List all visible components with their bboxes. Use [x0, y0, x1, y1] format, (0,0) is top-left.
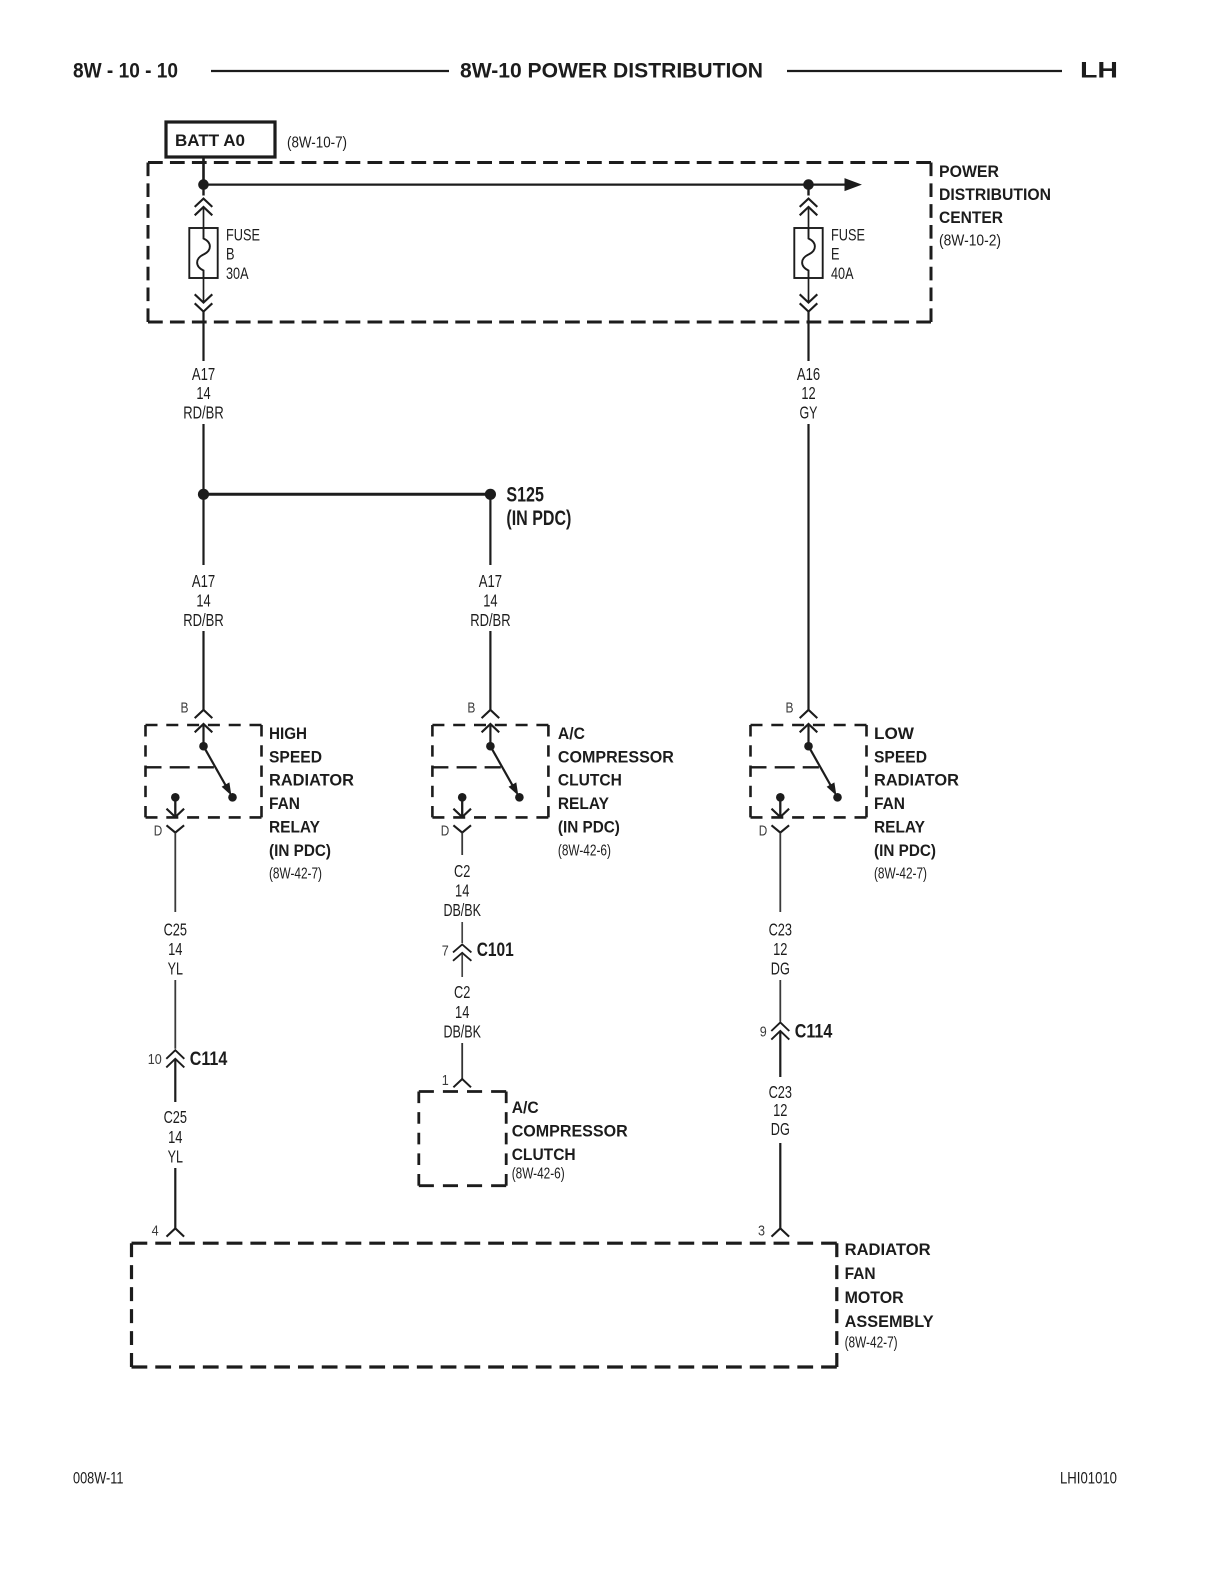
relay output contact low speed radiator fan relay [776, 793, 785, 802]
svg-text:COMPRESSOR: COMPRESSOR [558, 747, 674, 766]
connector half at pin B of low speed radiator fan relay [800, 710, 818, 718]
wire C114 to C25 label (lower) [174, 1068, 176, 1102]
wire A17 label to relay B (left) [202, 631, 204, 710]
relay box low speed radiator fan relay [751, 724, 867, 727]
relay pin D terminal arrow A/C compressor clutch relay [453, 797, 471, 817]
svg-text:14: 14 [168, 1127, 182, 1147]
wire label C23 12 DG (lower) [769, 1082, 792, 1139]
svg-text:4: 4 [152, 1223, 159, 1240]
connector chevrons above fuse E [800, 199, 818, 228]
relay output contact A/C compressor clutch relay [458, 793, 467, 802]
wire label C23 12 DG (upper) [769, 919, 792, 978]
connector label C114 (left) [190, 1049, 228, 1070]
svg-text:1: 1 [442, 1072, 449, 1089]
wire C2 to clutch pin 1 [461, 1043, 463, 1079]
wire relay D to C25 label [174, 833, 176, 912]
connector half at pin D of A/C compressor clutch relay [453, 825, 471, 832]
svg-text:RADIATOR: RADIATOR [874, 771, 959, 790]
svg-text:YL: YL [168, 1146, 183, 1166]
connector C114 pin 10 chevrons [166, 1050, 184, 1068]
page header title left [73, 60, 178, 83]
radiator fan motor assembly dashed box [132, 1243, 837, 1367]
svg-text:C25: C25 [164, 1107, 187, 1127]
relay common contact low speed radiator fan relay [804, 742, 813, 751]
connector chevrons above fuse B [195, 199, 213, 228]
svg-text:DG: DG [771, 1119, 790, 1139]
A/C compressor clutch dashed box [419, 1092, 506, 1186]
wire BATT A0 to junction [202, 157, 205, 185]
footer drawing id [1060, 1469, 1117, 1488]
fuse E symbol [794, 228, 822, 278]
pin number 9 at C114 [760, 1024, 767, 1041]
svg-text:D: D [759, 824, 768, 840]
svg-text:9: 9 [760, 1024, 767, 1041]
svg-text:14: 14 [455, 881, 469, 901]
label RADIATOR FAN MOTOR ASSEMBLY [845, 1240, 935, 1351]
svg-text:CLUTCH: CLUTCH [558, 771, 622, 790]
svg-text:008W-11: 008W-11 [73, 1469, 124, 1488]
svg-text:(8W-42-6): (8W-42-6) [558, 843, 611, 860]
wire A17 splice to label (left) [202, 494, 204, 565]
power distribution center dashed box [148, 163, 931, 323]
svg-text:C25: C25 [164, 919, 187, 939]
svg-text:FAN: FAN [269, 794, 300, 813]
svg-text:DB/BK: DB/BK [443, 1021, 481, 1041]
relay switch arm A/C compressor clutch relay [490, 746, 517, 794]
pin number 7 at C101 [442, 942, 449, 959]
svg-text:(8W-10-7): (8W-10-7) [287, 135, 347, 152]
svg-text:(8W-42-6): (8W-42-6) [512, 1166, 565, 1183]
connector half at clutch pin 1 [453, 1079, 471, 1087]
wire C25 to motor pin 4 [174, 1168, 176, 1228]
BATT A0 reference (8W-10-7) [287, 135, 347, 152]
wire label C2 14 DB/BK (upper) [443, 861, 481, 920]
svg-text:RELAY: RELAY [269, 818, 321, 837]
svg-text:DB/BK: DB/BK [443, 900, 481, 920]
splice label S125 (IN PDC) [506, 484, 571, 530]
connector label C101 [477, 940, 514, 961]
svg-text:E: E [831, 245, 840, 264]
relay pin B terminal arrow high speed radiator fan relay [195, 724, 213, 746]
svg-text:B: B [226, 245, 235, 264]
fuse B symbol [189, 228, 217, 278]
svg-text:RELAY: RELAY [558, 794, 610, 813]
wire C23 label to connector C114 [779, 980, 781, 1022]
svg-text:DG: DG [771, 959, 790, 979]
relay NO contact low speed radiator fan relay [833, 793, 842, 802]
wire C101 to C2 label (lower) [461, 962, 463, 977]
svg-text:D: D [154, 824, 163, 840]
connector half at pin D of low speed radiator fan relay [772, 825, 790, 832]
svg-text:RADIATOR: RADIATOR [269, 771, 354, 790]
splice S125 bus wire [204, 493, 491, 496]
svg-text:(IN PDC): (IN PDC) [874, 841, 936, 860]
relay internal dashed divider A/C compressor clutch relay [432, 766, 500, 768]
page header LH [1080, 58, 1118, 83]
connector half at motor pin 4 [167, 1228, 185, 1236]
svg-text:CENTER: CENTER [939, 208, 1003, 227]
wire relay D to C23 label [779, 833, 781, 912]
svg-text:A16: A16 [797, 364, 820, 384]
header rule right [787, 70, 1062, 72]
relay output contact high speed radiator fan relay [171, 793, 180, 802]
feed wire to fuse E with arrow [204, 179, 861, 191]
svg-text:(IN PDC): (IN PDC) [558, 818, 620, 837]
svg-text:S125: S125 [506, 484, 544, 507]
relay NO contact high speed radiator fan relay [228, 793, 237, 802]
relay NO contact A/C compressor clutch relay [515, 793, 524, 802]
svg-text:12: 12 [773, 1100, 787, 1120]
svg-text:(8W-42-7): (8W-42-7) [845, 1335, 898, 1352]
pin number 4 at motor [152, 1223, 159, 1240]
relay internal dashed divider high speed radiator fan relay [146, 766, 214, 768]
svg-text:FUSE: FUSE [831, 225, 865, 244]
connector C114 pin 9 chevrons [771, 1022, 789, 1041]
label A/C COMPRESSOR CLUTCH [512, 1098, 628, 1183]
svg-text:POWER: POWER [939, 162, 999, 181]
svg-text:14: 14 [483, 590, 497, 610]
connector chevrons below fuse B [195, 278, 213, 361]
splice S125 junction dot right [485, 489, 496, 500]
wire C114 to C23 label (lower) [779, 1041, 781, 1077]
wire label A17 14 RD/BR (upper) [183, 364, 223, 423]
wire label A17 14 RD/BR (middle) [470, 571, 510, 630]
svg-text:BATT A0: BATT A0 [175, 132, 245, 150]
wire label C25 14 YL (lower) [164, 1107, 187, 1166]
svg-text:14: 14 [455, 1002, 469, 1022]
svg-text:YL: YL [168, 959, 183, 979]
relay pin D terminal arrow high speed radiator fan relay [167, 797, 185, 817]
svg-text:B: B [786, 700, 794, 716]
svg-text:LOW: LOW [874, 724, 915, 743]
pin number 3 at motor [758, 1223, 765, 1240]
svg-text:(IN PDC): (IN PDC) [269, 841, 331, 860]
wire C25 label to connector C114 [174, 980, 176, 1049]
svg-text:FUSE: FUSE [226, 225, 260, 244]
svg-text:8W - 10 - 10: 8W - 10 - 10 [73, 60, 178, 83]
relay pin B terminal arrow low speed radiator fan relay [800, 724, 818, 746]
relay common contact high speed radiator fan relay [199, 742, 208, 751]
svg-text:7: 7 [442, 942, 449, 959]
relay pin D terminal arrow low speed radiator fan relay [772, 797, 790, 817]
connector half at pin B of high speed radiator fan relay [195, 710, 213, 718]
pin number 10 at C114 [148, 1051, 162, 1068]
svg-text:(8W-42-7): (8W-42-7) [269, 866, 322, 883]
label A/C COMPRESSOR CLUTCH RELAY [558, 724, 674, 860]
svg-text:HIGH: HIGH [269, 724, 307, 743]
connector half at pin D of high speed radiator fan relay [167, 825, 185, 832]
connector C101 pin 7 chevrons [453, 944, 471, 962]
svg-text:(8W-42-7): (8W-42-7) [874, 866, 927, 883]
svg-text:B: B [181, 700, 189, 716]
svg-text:A17: A17 [192, 571, 215, 591]
svg-text:10: 10 [148, 1051, 162, 1068]
svg-text:3: 3 [758, 1223, 765, 1240]
relay switch arm high speed radiator fan relay [204, 746, 231, 794]
wire label C2 14 DB/BK (lower) [443, 982, 481, 1041]
connector label C114 (right) [795, 1022, 833, 1043]
fuse B value label [226, 225, 260, 283]
wire C23 to motor pin 3 [779, 1143, 781, 1228]
svg-text:40A: 40A [831, 264, 854, 283]
svg-text:A/C: A/C [558, 724, 585, 743]
svg-text:FAN: FAN [874, 794, 905, 813]
wire relay D to C2 label [461, 833, 463, 855]
fuse E value label [831, 225, 865, 283]
svg-text:MOTOR: MOTOR [845, 1288, 904, 1307]
relay box high speed radiator fan relay [146, 724, 262, 727]
label HIGH SPEED RADIATOR FAN RELAY [269, 724, 354, 883]
svg-text:C101: C101 [477, 940, 514, 961]
svg-text:GY: GY [800, 403, 818, 423]
svg-text:B: B [467, 700, 475, 716]
page header title center [460, 60, 763, 83]
relay pin B terminal arrow A/C compressor clutch relay [482, 724, 500, 746]
svg-text:8W-10 POWER DISTRIBUTION: 8W-10 POWER DISTRIBUTION [460, 60, 763, 83]
svg-text:C114: C114 [795, 1022, 833, 1043]
splice S125 junction dot left [198, 489, 209, 500]
label LOW SPEED RADIATOR FAN RELAY [874, 724, 959, 883]
wire A17 label to relay B (middle) [489, 631, 491, 710]
svg-text:CLUTCH: CLUTCH [512, 1145, 576, 1164]
relay box A/C compressor clutch relay [432, 724, 548, 727]
svg-text:30A: 30A [226, 264, 249, 283]
svg-text:(IN PDC): (IN PDC) [506, 507, 571, 530]
junction node at fuse B [198, 179, 209, 190]
svg-text:C2: C2 [454, 982, 470, 1002]
label POWER DISTRIBUTION CENTER [939, 162, 1051, 249]
svg-text:12: 12 [773, 939, 787, 959]
footer sheet number [73, 1469, 124, 1488]
svg-text:LHI01010: LHI01010 [1060, 1469, 1117, 1488]
wire A17 from label to splice [202, 424, 204, 494]
svg-text:(8W-10-2): (8W-10-2) [939, 232, 1001, 249]
wire A16 to relay B (right) [807, 424, 809, 710]
svg-text:ASSEMBLY: ASSEMBLY [845, 1312, 935, 1331]
svg-text:RD/BR: RD/BR [183, 403, 223, 423]
svg-text:A/C: A/C [512, 1098, 539, 1117]
svg-text:RELAY: RELAY [874, 818, 926, 837]
svg-text:14: 14 [168, 939, 182, 959]
svg-text:SPEED: SPEED [269, 747, 322, 766]
svg-text:C23: C23 [769, 919, 792, 939]
connector half at motor pin 3 [772, 1228, 790, 1236]
wire A17 splice to label (middle) [489, 494, 491, 565]
header rule left [211, 70, 449, 72]
svg-text:RD/BR: RD/BR [183, 610, 223, 630]
wire label A16 12 GY [797, 364, 820, 423]
svg-text:SPEED: SPEED [874, 747, 927, 766]
svg-text:FAN: FAN [845, 1264, 876, 1283]
battery feed box BATT A0 [166, 122, 275, 157]
svg-text:COMPRESSOR: COMPRESSOR [512, 1121, 628, 1140]
svg-text:C114: C114 [190, 1049, 228, 1070]
svg-text:RD/BR: RD/BR [470, 610, 510, 630]
svg-text:14: 14 [196, 383, 210, 403]
wire B feed stub [202, 185, 204, 196]
connector half at pin B of A/C compressor clutch relay [482, 710, 500, 718]
relay internal dashed divider low speed radiator fan relay [751, 766, 819, 768]
svg-text:LH: LH [1080, 58, 1118, 83]
svg-text:D: D [441, 824, 450, 840]
svg-text:DISTRIBUTION: DISTRIBUTION [939, 185, 1051, 204]
relay common contact A/C compressor clutch relay [486, 742, 495, 751]
svg-text:A17: A17 [192, 364, 215, 384]
svg-text:12: 12 [801, 383, 815, 403]
wire label C25 14 YL (upper) [164, 919, 187, 978]
wire label A17 14 RD/BR (lower left) [183, 571, 223, 630]
wire E feed stub [807, 185, 809, 196]
wire C2 label to connector C101 [461, 922, 463, 943]
junction node at fuse E [803, 179, 814, 190]
svg-text:C2: C2 [454, 861, 470, 881]
svg-text:14: 14 [196, 590, 210, 610]
svg-text:RADIATOR: RADIATOR [845, 1240, 931, 1259]
svg-text:A17: A17 [479, 571, 502, 591]
connector chevrons below fuse E [800, 278, 818, 361]
relay switch arm low speed radiator fan relay [809, 746, 836, 794]
pin number 1 at clutch [442, 1072, 449, 1089]
